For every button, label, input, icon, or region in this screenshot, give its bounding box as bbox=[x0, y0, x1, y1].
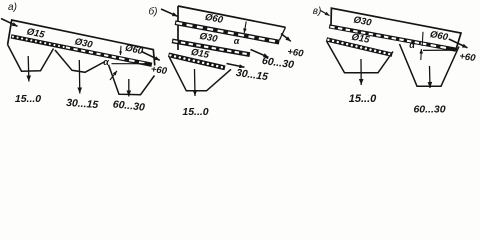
hopper v2 bbox=[400, 44, 460, 86]
hopper a2 bbox=[55, 50, 105, 72]
deck a screen strip (perforated) bbox=[11, 34, 153, 67]
deck b1 top edge bbox=[178, 6, 286, 27]
deck v2 screen strip O15 bbox=[326, 37, 393, 57]
hopper a2 flow arrow bbox=[78, 60, 81, 94]
feed arrow a bbox=[1, 19, 18, 27]
stack left edge b bbox=[177, 6, 179, 50]
alpha horizontal reference line a bbox=[112, 63, 152, 65]
hopper v2 flow arrow bbox=[429, 66, 432, 88]
svg-text:+60: +60 bbox=[150, 64, 168, 77]
hopper a1 flow arrow bbox=[27, 56, 30, 82]
deck b1 right edge bbox=[280, 27, 286, 40]
section divider line deck v1 bbox=[421, 32, 424, 46]
hopper b bbox=[170, 58, 232, 91]
fall-through arrow b bbox=[244, 22, 246, 34]
hopper v1 flow arrow bbox=[360, 59, 362, 85]
hopper a1 bbox=[8, 45, 54, 72]
svg-text:60...30: 60...30 bbox=[413, 104, 445, 116]
up arrow at deck a end bbox=[110, 71, 117, 80]
deck v1 outline bbox=[331, 8, 461, 49]
deck b2 screen strip O30 bbox=[172, 39, 251, 57]
discharge arrow +60 a bbox=[142, 52, 160, 61]
svg-text:α: α bbox=[409, 40, 415, 50]
deck v1 screen strip O30/O60 bbox=[329, 24, 457, 51]
hopper a3 bbox=[109, 65, 155, 95]
svg-text:15...0: 15...0 bbox=[182, 106, 208, 118]
svg-text:+60: +60 bbox=[459, 51, 477, 64]
hopper b flow arrow bbox=[194, 69, 197, 96]
svg-text:в): в) bbox=[313, 6, 322, 17]
feed arrow v bbox=[321, 11, 330, 16]
svg-text:15...0: 15...0 bbox=[15, 93, 41, 105]
deck a outline bbox=[8, 20, 155, 66]
svg-text:а): а) bbox=[8, 2, 17, 13]
deck b3 screen strip O15 bbox=[168, 53, 226, 71]
discharge arrow +60 v bbox=[449, 39, 468, 48]
svg-text:15...0: 15...0 bbox=[349, 93, 377, 105]
alpha horizontal reference line v bbox=[423, 49, 458, 51]
discharge arrow 30...15 b bbox=[227, 64, 245, 68]
discharge arrow +60 b bbox=[281, 34, 291, 42]
feed arrow b bbox=[161, 9, 178, 16]
hopper v1 bbox=[327, 41, 394, 73]
discharge arrow 60...30 b bbox=[251, 50, 269, 58]
svg-text:α: α bbox=[234, 36, 240, 46]
section divider tick deck a bbox=[119, 46, 122, 55]
svg-text:б): б) bbox=[149, 6, 158, 18]
up arrow at angle vertex v bbox=[420, 49, 423, 60]
deck b1 screen strip O60 bbox=[175, 20, 280, 44]
background paper bbox=[0, 0, 480, 122]
hopper a3 flow arrow bbox=[128, 79, 130, 97]
svg-text:30...15: 30...15 bbox=[66, 97, 99, 111]
